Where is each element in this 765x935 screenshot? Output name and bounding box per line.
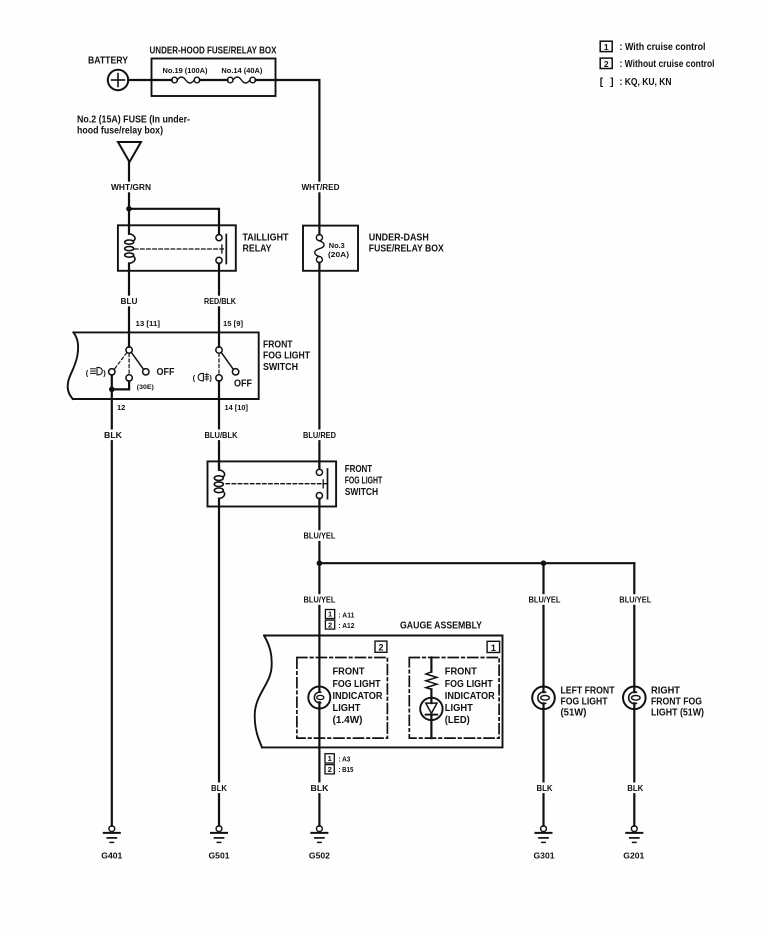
fog relay label	[345, 464, 383, 498]
svg-text:LIGHT (51W): LIGHT (51W)	[651, 708, 704, 719]
ground G301	[534, 826, 556, 861]
svg-text:1: 1	[328, 610, 332, 619]
svg-text:: A12: : A12	[338, 621, 354, 630]
fog relay coil	[214, 461, 224, 498]
wire BLU/YEL relay out	[318, 499, 320, 564]
svg-text:BLK: BLK	[311, 784, 329, 793]
svg-text:GAUGE ASSEMBLY: GAUGE ASSEMBLY	[400, 621, 482, 632]
wire battery to fuse box	[128, 79, 171, 81]
svg-text:13 [11]: 13 [11]	[136, 319, 161, 328]
svg-text:: B15: : B15	[338, 765, 353, 774]
under-dash fuse/relay box	[303, 226, 358, 271]
fuse No.3 (20A)	[315, 226, 324, 271]
switch B dashed to fog contact	[218, 353, 220, 374]
svg-text:12: 12	[117, 403, 125, 412]
svg-text:hood fuse/relay box): hood fuse/relay box)	[77, 126, 163, 137]
svg-text:No.14 (40A): No.14 (40A)	[221, 66, 262, 75]
svg-text:BLU/YEL: BLU/YEL	[304, 596, 336, 605]
indicator bulb (1.4W)	[308, 687, 330, 709]
svg-text:: KQ, KU, KN: : KQ, KU, KN	[620, 77, 672, 88]
wire BLK relay coil label	[209, 783, 229, 794]
svg-text:SWITCH: SWITCH	[263, 362, 298, 373]
taillight relay coil	[125, 225, 135, 270]
svg-text:RIGHT: RIGHT	[651, 685, 680, 696]
fuse No.2 label	[77, 115, 190, 137]
wire BLU/YEL to gauge	[318, 563, 320, 692]
svg-text:FRONT: FRONT	[333, 667, 365, 678]
switch B arm to OFF	[221, 352, 233, 369]
legend KQ KU KN	[600, 77, 672, 88]
svg-text:(51W): (51W)	[561, 708, 587, 719]
fog relay contacts	[226, 461, 328, 498]
connector A11/A12 labels	[325, 610, 334, 630]
boxed 1 label	[487, 641, 500, 653]
svg-text:FOG LIGHT: FOG LIGHT	[561, 697, 608, 708]
resistor for LED	[426, 658, 437, 704]
svg-text:SWITCH: SWITCH	[345, 487, 379, 498]
label WHT/RED	[300, 182, 342, 193]
taillight relay contacts	[135, 235, 227, 264]
svg-text:BLK: BLK	[104, 431, 122, 440]
svg-text:FOG LIGHT: FOG LIGHT	[345, 476, 383, 487]
node junction dot	[126, 206, 132, 212]
svg-text:LIGHT: LIGHT	[333, 703, 361, 714]
svg-text:FRONT: FRONT	[263, 339, 293, 350]
svg-text:RELAY: RELAY	[243, 244, 272, 255]
node junction dot	[109, 387, 115, 393]
svg-text:G301: G301	[534, 852, 556, 861]
wire BLU/YEL to left fog light	[542, 563, 544, 692]
svg-text:TAILLIGHT: TAILLIGHT	[243, 233, 289, 244]
wire BLK pin12 to G401	[111, 389, 113, 825]
wire BLU	[128, 271, 130, 333]
svg-text:INDICATOR: INDICATOR	[445, 691, 496, 702]
svg-text:G201: G201	[623, 852, 645, 861]
wire RED/BLK	[218, 264, 220, 333]
wire BLU/YEL to right fog light	[633, 563, 635, 692]
gauge assembly box (torn edge)	[262, 636, 503, 748]
node junction main	[317, 560, 323, 566]
svg-text:FOG LIGHT: FOG LIGHT	[445, 679, 493, 690]
svg-text:BLU/RED: BLU/RED	[303, 431, 336, 440]
svg-text:1: 1	[604, 42, 609, 52]
svg-text:FRONT: FRONT	[445, 667, 477, 678]
svg-text:14 [10]: 14 [10]	[225, 403, 249, 412]
svg-text:: A11: : A11	[338, 610, 354, 619]
svg-text:INDICATOR: INDICATOR	[333, 691, 384, 702]
svg-text:WHT/RED: WHT/RED	[302, 183, 340, 192]
wire left fog to G301	[542, 703, 544, 825]
front fog light switch label	[263, 339, 310, 373]
svg-text:OFF: OFF	[234, 379, 252, 390]
svg-text:No.2 (15A) FUSE (In under-: No.2 (15A) FUSE (In under-	[77, 115, 190, 126]
icon fog light position	[86, 367, 106, 377]
svg-text:LIGHT: LIGHT	[445, 703, 473, 714]
svg-text:OFF: OFF	[157, 367, 175, 378]
ground G502	[309, 826, 331, 861]
right front fog light bulb	[623, 687, 646, 710]
taillight relay box	[118, 225, 236, 270]
svg-text:]: ]	[610, 77, 613, 88]
ground G401	[101, 826, 123, 861]
svg-text:FOG LIGHT: FOG LIGHT	[263, 351, 310, 362]
svg-text:: Without cruise control: : Without cruise control	[620, 59, 715, 70]
wire BLU/BLK pin14 to fog relay coil	[218, 381, 220, 467]
boxed 2 label	[375, 641, 387, 653]
svg-text:2: 2	[328, 620, 332, 629]
wire between fuses	[200, 79, 228, 81]
label indicator bulb	[333, 667, 384, 727]
under-hood fuse/relay box	[150, 46, 277, 97]
svg-text:FRONT: FRONT	[345, 464, 373, 475]
svg-text:BLU: BLU	[121, 297, 138, 306]
svg-text:WHT/GRN: WHT/GRN	[111, 183, 151, 192]
wire junction to relay contact	[129, 209, 219, 235]
svg-text:2: 2	[378, 643, 383, 653]
wire L-link contacts to pin 12	[112, 375, 129, 389]
svg-text:G401: G401	[101, 852, 123, 861]
svg-text:BLK: BLK	[537, 784, 553, 793]
svg-text:FRONT FOG: FRONT FOG	[651, 697, 702, 708]
svg-text:(LED): (LED)	[445, 715, 470, 726]
switch B pivot	[218, 332, 220, 346]
svg-text:FUSE/RELAY BOX: FUSE/RELAY BOX	[369, 244, 444, 255]
icon rear fog position	[193, 373, 213, 382]
wire BLU/RED under-dash to fog relay	[318, 271, 320, 468]
svg-text:FOG LIGHT: FOG LIGHT	[333, 679, 381, 690]
svg-text:15 [9]: 15 [9]	[223, 319, 244, 328]
legend with cruise control	[600, 41, 705, 53]
node junction left fog	[541, 560, 547, 566]
battery B1	[88, 56, 128, 91]
legend without cruise control	[600, 58, 714, 70]
svg-text:: With cruise control: : With cruise control	[620, 42, 706, 53]
svg-text:LEFT FRONT: LEFT FRONT	[561, 685, 615, 696]
label BLK gauge ground	[309, 783, 331, 794]
svg-text:No.3: No.3	[329, 241, 345, 250]
left front fog light bulb	[532, 687, 555, 710]
label indicator LED	[445, 667, 496, 727]
wire right fog to G201	[633, 703, 635, 825]
indicator LED	[420, 698, 442, 738]
svg-text:1: 1	[491, 643, 496, 653]
front fog light relay box	[208, 461, 337, 506]
svg-text:(30E): (30E)	[137, 384, 154, 391]
svg-text:No.19 (100A): No.19 (100A)	[163, 66, 208, 75]
fuse No.14 (40A)	[221, 66, 262, 83]
svg-text:1: 1	[328, 754, 332, 763]
switch A arm to OFF	[131, 352, 143, 369]
wire WHT/GRN triangle to relay	[128, 162, 130, 225]
fuse No.19 (100A)	[163, 66, 208, 83]
svg-text:BLK: BLK	[627, 784, 643, 793]
svg-text:BLK: BLK	[211, 784, 227, 793]
svg-text:2: 2	[328, 765, 332, 774]
fuse No.2 triangle symbol	[118, 142, 141, 162]
wire fuse box to under-dash box (WHT/RED)	[256, 80, 320, 226]
ground G201	[623, 826, 645, 861]
switch A dashed to fog contact	[114, 353, 127, 370]
svg-text:BLU/YEL: BLU/YEL	[619, 596, 651, 605]
wire bulb to A3/B15 and G502	[318, 702, 320, 826]
switch A pivot	[128, 332, 130, 346]
svg-text:BATTERY: BATTERY	[88, 56, 128, 67]
svg-text:2: 2	[604, 59, 609, 69]
ground G501	[209, 826, 231, 861]
svg-text:G501: G501	[209, 852, 231, 861]
svg-text:BLU/BLK: BLU/BLK	[205, 431, 238, 440]
svg-text:(1.4W): (1.4W)	[333, 715, 363, 726]
svg-text:G502: G502	[309, 852, 331, 861]
svg-text:UNDER-DASH: UNDER-DASH	[369, 233, 429, 244]
connector A3/B15 labels	[325, 754, 334, 774]
label WHT/GRN	[109, 182, 153, 193]
dashed box indicator bulb variant 2	[297, 658, 388, 739]
switch A dashed to mid contact	[128, 353, 130, 374]
svg-text:: A3: : A3	[338, 755, 350, 764]
svg-text:UNDER-HOOD FUSE/RELAY BOX: UNDER-HOOD FUSE/RELAY BOX	[150, 46, 277, 57]
svg-text:BLU/YEL: BLU/YEL	[529, 596, 561, 605]
svg-text:RED/BLK: RED/BLK	[204, 297, 236, 306]
wire branch horizontal	[319, 562, 634, 564]
wire BLK coil to G501	[218, 499, 220, 826]
svg-text:BLU/YEL: BLU/YEL	[304, 532, 336, 541]
dashed box indicator LED variant 1	[409, 658, 499, 739]
front fog light switch box (torn edge)	[73, 332, 259, 399]
taillight relay label	[243, 233, 289, 255]
svg-text:(20A): (20A)	[328, 250, 350, 259]
